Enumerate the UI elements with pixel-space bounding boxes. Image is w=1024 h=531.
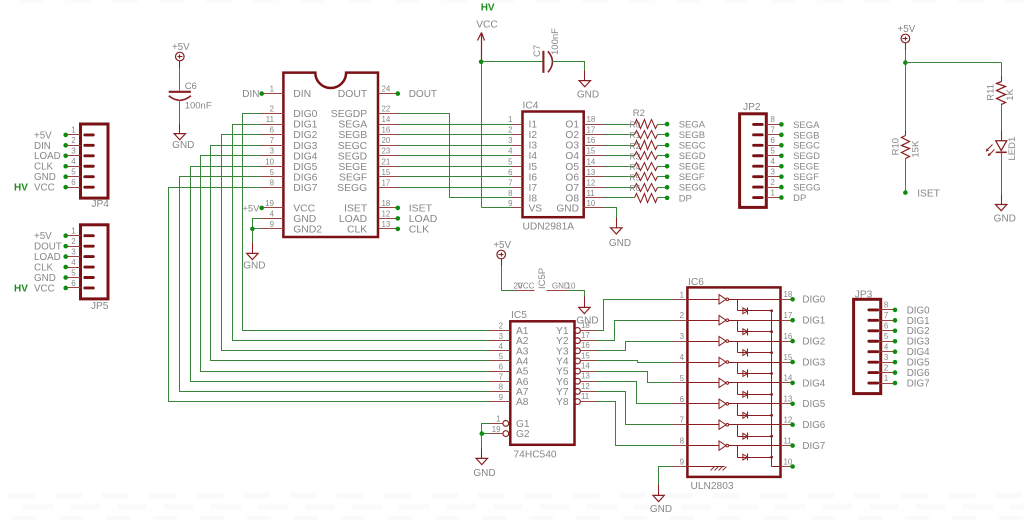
svg-text:16: 16	[587, 136, 596, 145]
svg-text:SEGB: SEGB	[338, 130, 367, 141]
svg-text:R10: R10	[891, 138, 902, 155]
svg-text:UDN2981A: UDN2981A	[523, 221, 575, 232]
svg-text:DIG2: DIG2	[802, 337, 825, 348]
svg-text:2: 2	[680, 311, 684, 320]
svg-text:24: 24	[382, 85, 391, 94]
svg-text:DIG3: DIG3	[907, 337, 930, 348]
svg-text:SEGA: SEGA	[793, 120, 820, 131]
svg-text:DIG7: DIG7	[907, 378, 930, 389]
svg-text:1K: 1K	[1005, 88, 1016, 100]
svg-text:SEGA: SEGA	[679, 120, 706, 131]
svg-text:12: 12	[581, 382, 590, 391]
svg-text:I2: I2	[529, 130, 538, 141]
svg-text:DIG4: DIG4	[907, 347, 930, 358]
svg-text:SEGF: SEGF	[793, 172, 819, 183]
svg-text:+5V: +5V	[34, 231, 52, 242]
svg-text:I7: I7	[529, 183, 538, 194]
svg-text:6: 6	[71, 279, 76, 288]
svg-text:SEGE: SEGE	[793, 162, 819, 173]
svg-text:16: 16	[382, 126, 391, 135]
svg-text:O4: O4	[565, 151, 579, 162]
svg-text:DIN: DIN	[34, 141, 51, 152]
svg-text:1: 1	[71, 227, 75, 236]
svg-text:2: 2	[71, 237, 75, 246]
svg-text:1: 1	[884, 374, 888, 383]
svg-text:SEGD: SEGD	[679, 151, 706, 162]
svg-text:ISET: ISET	[344, 204, 368, 215]
svg-text:DIG6: DIG6	[293, 172, 317, 183]
svg-text:DIG0: DIG0	[293, 109, 317, 120]
svg-text:CLK: CLK	[347, 225, 367, 236]
svg-text:74HC540: 74HC540	[514, 449, 557, 460]
svg-text:SEGF: SEGF	[679, 172, 705, 183]
svg-text:DIG3: DIG3	[802, 357, 825, 368]
svg-text:8: 8	[499, 383, 504, 392]
svg-text:IC6: IC6	[688, 277, 704, 288]
svg-text:100nF: 100nF	[185, 101, 212, 112]
svg-text:VCC: VCC	[518, 281, 535, 290]
svg-text:JP4: JP4	[91, 199, 109, 210]
svg-text:DIG0: DIG0	[802, 295, 825, 306]
svg-text:15: 15	[581, 351, 590, 360]
svg-text:1: 1	[771, 188, 775, 197]
svg-text:ULN2803: ULN2803	[691, 481, 734, 492]
svg-text:6: 6	[771, 136, 776, 145]
svg-text:10: 10	[567, 281, 576, 290]
svg-text:17: 17	[581, 331, 590, 340]
svg-text:SEGC: SEGC	[793, 141, 820, 152]
svg-text:G2: G2	[516, 429, 530, 440]
svg-text:4: 4	[508, 147, 513, 156]
svg-text:DIG3: DIG3	[293, 141, 317, 152]
svg-text:DIG6: DIG6	[907, 368, 930, 379]
svg-text:O6: O6	[565, 172, 579, 183]
svg-text:7: 7	[270, 136, 274, 145]
svg-text:8: 8	[508, 189, 513, 198]
svg-text:SEGDP: SEGDP	[331, 109, 367, 120]
svg-text:I1: I1	[529, 120, 538, 131]
svg-text:22: 22	[382, 105, 391, 114]
svg-text:IC5P: IC5P	[537, 268, 548, 289]
svg-text:GND: GND	[34, 273, 56, 284]
svg-text:4: 4	[884, 343, 889, 352]
svg-text:GND: GND	[34, 172, 56, 183]
svg-text:2: 2	[508, 126, 512, 135]
svg-text:18: 18	[581, 321, 590, 330]
svg-text:DOUT: DOUT	[34, 242, 62, 253]
svg-text:9: 9	[499, 393, 504, 402]
svg-text:DIG7: DIG7	[293, 183, 317, 194]
svg-text:3: 3	[680, 332, 685, 341]
svg-text:DIG0: DIG0	[907, 305, 930, 316]
svg-text:DOUT: DOUT	[338, 89, 368, 100]
svg-text:10: 10	[265, 157, 274, 166]
svg-text:SEGE: SEGE	[338, 162, 367, 173]
svg-text:1: 1	[680, 290, 684, 299]
svg-text:JP2: JP2	[743, 102, 761, 113]
svg-text:3: 3	[499, 332, 504, 341]
svg-text:LOAD: LOAD	[339, 214, 367, 225]
svg-text:5: 5	[499, 352, 504, 361]
svg-text:LOAD: LOAD	[34, 252, 61, 263]
svg-text:CLK: CLK	[409, 224, 429, 236]
svg-text:DIG4: DIG4	[293, 151, 317, 162]
svg-text:SEGG: SEGG	[679, 183, 706, 194]
svg-text:VCC: VCC	[34, 283, 55, 294]
svg-text:6: 6	[508, 168, 513, 177]
svg-text:2: 2	[771, 178, 775, 187]
svg-text:3: 3	[71, 147, 76, 156]
svg-text:GND: GND	[243, 260, 265, 271]
svg-text:14: 14	[587, 157, 596, 166]
svg-text:20: 20	[382, 136, 391, 145]
svg-text:100nF: 100nF	[550, 28, 561, 55]
svg-text:SEGB: SEGB	[793, 130, 819, 141]
svg-text:2: 2	[884, 363, 888, 372]
svg-text:5: 5	[771, 147, 776, 156]
svg-text:DIG5: DIG5	[293, 162, 317, 173]
svg-text:GND: GND	[473, 468, 495, 479]
svg-text:5: 5	[270, 168, 275, 177]
svg-text:+5V: +5V	[898, 24, 916, 35]
svg-text:4: 4	[771, 157, 776, 166]
svg-text:2: 2	[270, 105, 274, 114]
svg-text:O2: O2	[565, 130, 579, 141]
svg-text:11: 11	[587, 189, 595, 198]
svg-text:DIN: DIN	[242, 89, 259, 100]
svg-text:VCC: VCC	[293, 204, 315, 215]
svg-text:CLK: CLK	[34, 162, 54, 173]
svg-text:6: 6	[270, 126, 275, 135]
svg-text:HV: HV	[14, 283, 28, 294]
svg-text:+5V: +5V	[172, 42, 190, 53]
svg-text:17: 17	[382, 178, 391, 187]
svg-text:SEGG: SEGG	[793, 183, 820, 194]
svg-text:5: 5	[884, 332, 889, 341]
svg-text:5: 5	[71, 168, 76, 177]
svg-text:4: 4	[71, 157, 76, 166]
svg-text:1: 1	[508, 115, 512, 124]
svg-text:4: 4	[270, 209, 275, 218]
svg-text:7: 7	[884, 311, 888, 320]
svg-text:DOUT: DOUT	[409, 89, 437, 100]
svg-text:12: 12	[587, 178, 596, 187]
svg-text:17: 17	[587, 126, 596, 135]
svg-text:DIG5: DIG5	[802, 399, 825, 410]
svg-text:+5V: +5V	[493, 240, 511, 251]
svg-text:GND2: GND2	[293, 225, 322, 236]
svg-text:SEGF: SEGF	[339, 172, 367, 183]
svg-text:6: 6	[884, 322, 889, 331]
svg-text:I6: I6	[529, 172, 538, 183]
svg-text:Y8: Y8	[556, 397, 569, 408]
svg-text:VS: VS	[529, 203, 543, 214]
svg-text:7: 7	[680, 416, 684, 425]
svg-text:19: 19	[492, 425, 501, 434]
svg-text:LED1: LED1	[1007, 137, 1018, 161]
svg-text:5: 5	[508, 157, 513, 166]
svg-text:O5: O5	[565, 162, 579, 173]
svg-text:8: 8	[771, 115, 776, 124]
svg-text:3: 3	[508, 136, 513, 145]
svg-text:9: 9	[508, 199, 513, 208]
svg-text:DIN: DIN	[293, 89, 311, 100]
svg-text:IC4: IC4	[523, 101, 539, 112]
svg-text:SEGC: SEGC	[679, 141, 706, 152]
svg-text:7: 7	[771, 126, 775, 135]
svg-text:16: 16	[581, 341, 590, 350]
svg-text:23: 23	[382, 147, 391, 156]
svg-text:1: 1	[496, 415, 500, 424]
svg-text:DP: DP	[679, 193, 692, 204]
svg-text:O3: O3	[565, 141, 579, 152]
svg-text:9: 9	[680, 458, 685, 467]
svg-text:A8: A8	[516, 397, 529, 408]
svg-text:I3: I3	[529, 141, 538, 152]
svg-text:15: 15	[587, 147, 596, 156]
svg-text:6: 6	[499, 362, 504, 371]
svg-text:I4: I4	[529, 151, 538, 162]
svg-text:GND: GND	[609, 238, 631, 249]
svg-text:VCC: VCC	[476, 19, 498, 30]
svg-text:6: 6	[71, 178, 76, 187]
svg-text:DIG4: DIG4	[802, 378, 825, 389]
svg-text:SEGE: SEGE	[679, 162, 705, 173]
svg-text:13: 13	[587, 168, 596, 177]
svg-text:1: 1	[71, 126, 75, 135]
svg-text:7: 7	[499, 372, 503, 381]
svg-text:18: 18	[587, 115, 596, 124]
svg-text:SEGB: SEGB	[679, 130, 705, 141]
svg-text:JP3: JP3	[855, 289, 873, 300]
svg-text:C7: C7	[532, 45, 543, 57]
svg-text:2: 2	[499, 322, 503, 331]
svg-text:HV: HV	[481, 3, 495, 14]
svg-text:SEGD: SEGD	[338, 151, 367, 162]
svg-text:O1: O1	[565, 120, 579, 131]
svg-text:2: 2	[71, 136, 75, 145]
svg-text:1: 1	[270, 85, 274, 94]
svg-text:21: 21	[382, 157, 391, 166]
svg-text:SEGC: SEGC	[338, 141, 368, 152]
svg-text:11: 11	[784, 436, 792, 445]
svg-text:9: 9	[270, 220, 275, 229]
svg-text:15: 15	[382, 168, 391, 177]
svg-text:GND: GND	[577, 89, 599, 100]
svg-text:3: 3	[884, 353, 889, 362]
svg-text:4: 4	[499, 342, 504, 351]
svg-text:+5V: +5V	[34, 130, 52, 141]
svg-text:3: 3	[771, 167, 776, 176]
svg-text:10: 10	[587, 199, 596, 208]
svg-text:14: 14	[581, 362, 590, 371]
svg-text:+5V: +5V	[242, 203, 260, 214]
svg-text:DIG1: DIG1	[293, 120, 317, 131]
svg-text:8: 8	[270, 178, 275, 187]
svg-text:ISET: ISET	[917, 189, 940, 200]
svg-text:JP5: JP5	[91, 301, 109, 312]
svg-text:8: 8	[680, 437, 685, 446]
svg-text:O7: O7	[565, 183, 579, 194]
svg-text:GND: GND	[556, 203, 579, 214]
svg-text:HV: HV	[14, 183, 28, 194]
svg-text:GND: GND	[172, 140, 194, 151]
svg-text:DIG5: DIG5	[907, 358, 930, 369]
svg-text:15K: 15K	[911, 140, 922, 158]
svg-text:R11: R11	[986, 84, 997, 101]
svg-text:12: 12	[382, 209, 391, 218]
svg-text:DIG6: DIG6	[802, 420, 825, 431]
svg-text:DIG2: DIG2	[907, 326, 930, 337]
svg-text:DIG1: DIG1	[907, 316, 930, 327]
svg-text:GND: GND	[650, 504, 672, 515]
svg-text:5: 5	[71, 268, 76, 277]
svg-text:GND: GND	[293, 214, 316, 225]
svg-text:DIG7: DIG7	[802, 441, 825, 452]
svg-text:13: 13	[581, 372, 590, 381]
svg-text:VCC: VCC	[34, 183, 55, 194]
svg-text:3: 3	[270, 147, 275, 156]
svg-text:11: 11	[266, 115, 274, 124]
svg-text:CLK: CLK	[34, 262, 54, 273]
svg-text:SEGD: SEGD	[793, 151, 820, 162]
svg-text:6: 6	[680, 395, 685, 404]
svg-text:DIG2: DIG2	[293, 130, 317, 141]
svg-text:DP: DP	[793, 193, 806, 204]
svg-text:19: 19	[265, 199, 274, 208]
svg-text:4: 4	[680, 353, 685, 362]
svg-text:SEGA: SEGA	[338, 120, 367, 131]
svg-text:5: 5	[680, 374, 685, 383]
svg-text:14: 14	[382, 115, 391, 124]
svg-text:4: 4	[71, 258, 76, 267]
svg-text:SEGG: SEGG	[337, 183, 367, 194]
svg-text:8: 8	[884, 301, 889, 310]
svg-text:GND: GND	[994, 213, 1016, 224]
svg-text:R2: R2	[633, 108, 645, 119]
svg-text:11: 11	[581, 392, 589, 401]
svg-text:DIG1: DIG1	[802, 316, 825, 327]
svg-text:LOAD: LOAD	[34, 151, 61, 162]
svg-text:I5: I5	[529, 162, 538, 173]
svg-text:7: 7	[508, 178, 512, 187]
svg-text:18: 18	[382, 199, 391, 208]
svg-text:IC5: IC5	[511, 310, 527, 321]
svg-text:C6: C6	[185, 81, 197, 92]
svg-text:3: 3	[71, 247, 76, 256]
svg-text:13: 13	[382, 220, 391, 229]
